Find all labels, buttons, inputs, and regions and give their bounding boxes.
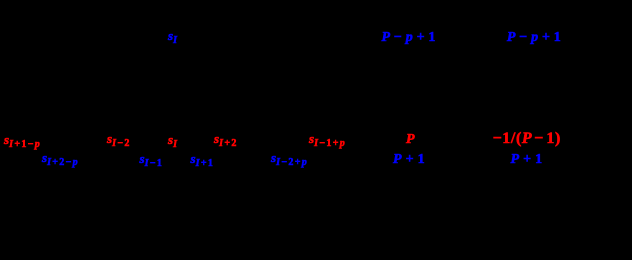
value label P (red) — [406, 133, 415, 147]
knot label s_I+1 (blue row) — [191, 152, 215, 169]
knot label s_I+1-p (red row) — [4, 133, 41, 150]
matrix entry P-p+1 (blue, top row, second) — [507, 31, 561, 45]
value label -1/(P-1) (red) — [493, 131, 561, 147]
knot label s_I+2 (red row) — [214, 132, 238, 149]
matrix entry P-p+1 (blue, top row, first) — [382, 31, 436, 45]
value label P+1 (blue, second) — [511, 153, 543, 167]
knot label s_I-2+p (blue row) — [271, 151, 308, 168]
knot label s_I-2 (red row) — [107, 132, 131, 149]
knot label s_I (red row) — [168, 133, 178, 150]
knot label s_I-1 (blue row) — [140, 152, 164, 169]
value label P+1 (blue, first) — [393, 153, 425, 167]
knot label s_I+2-p (blue row) — [42, 151, 79, 168]
knot label s_I-1+p (red row) — [309, 132, 346, 149]
node label s_I (blue, top) — [168, 29, 178, 46]
